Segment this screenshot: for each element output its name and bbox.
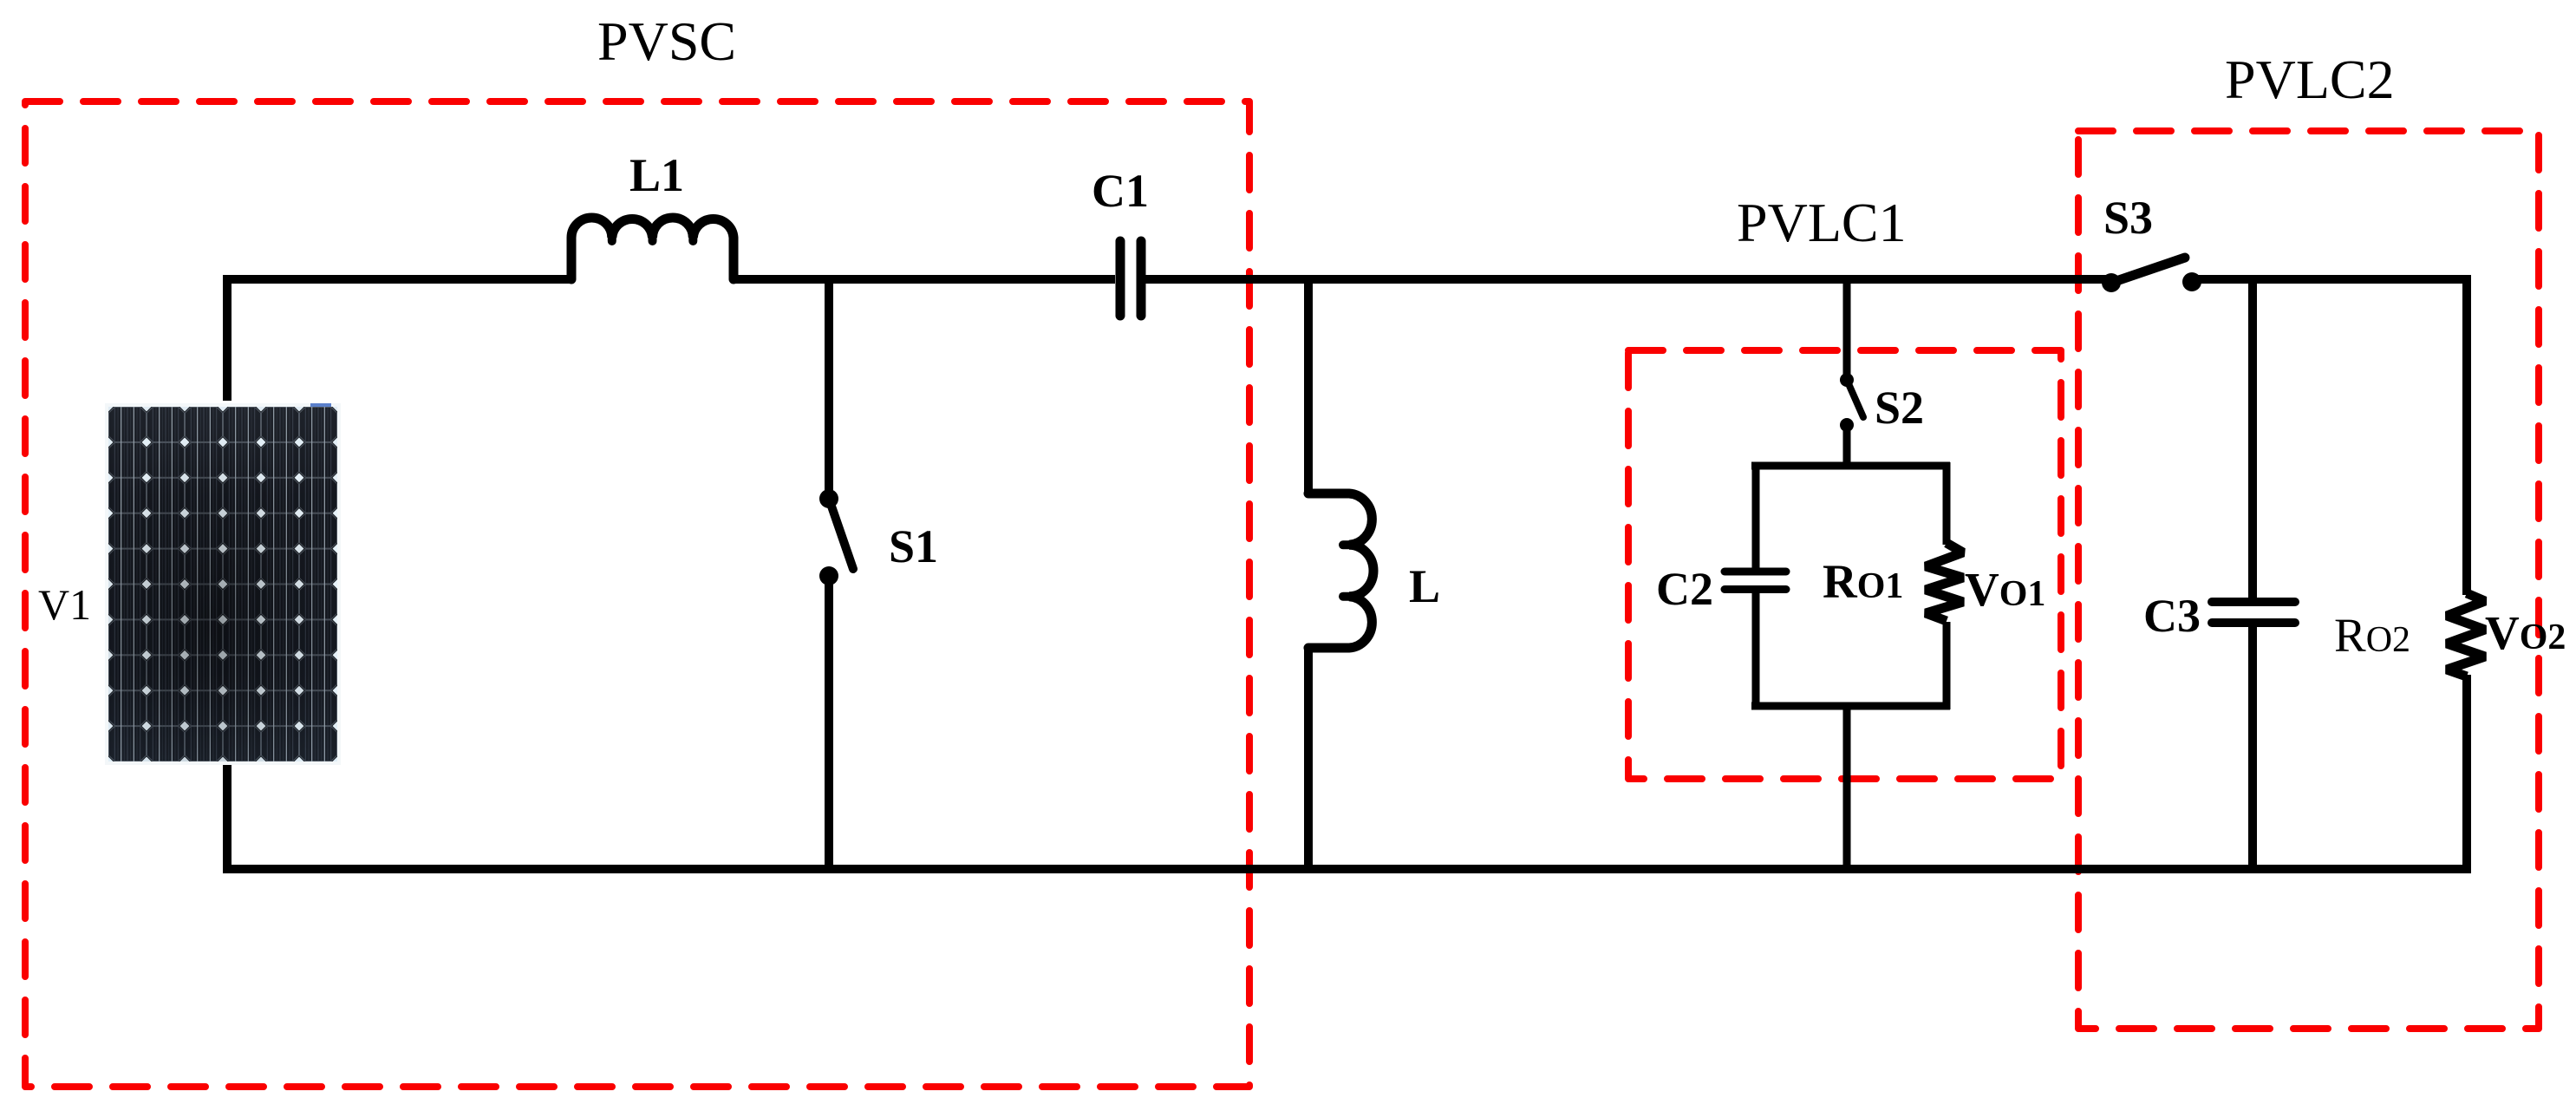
svg-text:L: L xyxy=(1409,560,1440,612)
resistor VO1 (right branch of box) xyxy=(1926,462,1963,709)
PVSC dashed boundary box xyxy=(25,101,1249,1087)
switch S2 branch wire from top bus xyxy=(1843,275,1851,376)
capacitor C2 (left branch of box) xyxy=(1725,462,1786,709)
wire: box down to bottom bus xyxy=(1843,706,1851,869)
svg-text:C3: C3 xyxy=(2143,590,2201,642)
PVLC1 dashed boundary box xyxy=(1628,350,2061,779)
svg-text:C2: C2 xyxy=(1656,563,1713,615)
PVLC2 dashed boundary box xyxy=(2078,131,2539,1029)
wire: S3 right to top-right corner and down to VO2 xyxy=(2192,279,2467,595)
switch S2 xyxy=(1840,373,1863,432)
wire: bottom bus xyxy=(227,761,2467,869)
svg-text:RO1: RO1 xyxy=(1823,555,1903,608)
wire: S2 to parallel RC box xyxy=(1843,425,1851,469)
inductor L branch wire from top bus xyxy=(1304,275,1313,493)
solar panel V1 xyxy=(105,403,341,765)
capacitor C1 xyxy=(1120,241,1141,316)
svg-text:C1: C1 xyxy=(1092,165,1149,217)
inductor L1 xyxy=(571,218,734,279)
wire: S1 down to bottom bus xyxy=(825,576,833,869)
switch S3 xyxy=(2102,258,2201,292)
svg-text:L1: L1 xyxy=(629,149,684,201)
node box of C2 and RO1: top edge xyxy=(1751,462,1950,470)
svg-text:VO1: VO1 xyxy=(1965,563,2045,616)
inductor L xyxy=(1308,493,1373,648)
capacitor C3 branch wire xyxy=(2248,275,2257,598)
switch S1 branch wire from top bus xyxy=(825,275,833,494)
resistor VO2 xyxy=(2447,593,2485,676)
wire: L1 to capacitor C1 xyxy=(734,275,1115,284)
svg-text:S3: S3 xyxy=(2103,192,2153,244)
svg-text:PVLC1: PVLC1 xyxy=(1737,192,1907,253)
wire: top-left from panel V1 up and right to L1 xyxy=(227,279,571,401)
svg-text:RO2: RO2 xyxy=(2334,609,2410,662)
wire: C1 to switch S3 xyxy=(1145,275,2107,284)
svg-text:PVLC2: PVLC2 xyxy=(2225,49,2395,110)
svg-text:PVSC: PVSC xyxy=(597,10,736,72)
capacitor C3 xyxy=(2212,602,2295,623)
wire: C3 down to bottom bus xyxy=(2248,626,2257,869)
wire: L down to bottom bus xyxy=(1304,648,1313,869)
node box bottom edge xyxy=(1751,703,1950,710)
svg-text:V1: V1 xyxy=(38,580,91,629)
wire: VO2 down to bottom bus xyxy=(2462,675,2471,873)
switch S1 xyxy=(819,489,853,585)
svg-text:VO2: VO2 xyxy=(2485,606,2566,659)
svg-text:S1: S1 xyxy=(889,520,938,572)
svg-text:S2: S2 xyxy=(1875,382,1924,434)
